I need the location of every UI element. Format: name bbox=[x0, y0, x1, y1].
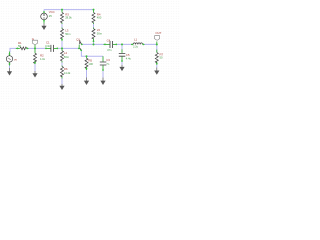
junction and terminal dots bbox=[9, 9, 158, 71]
inductor L4 bbox=[61, 51, 70, 61]
ground under R6 bbox=[59, 84, 64, 90]
svg-text:1.1k: 1.1k bbox=[40, 57, 46, 61]
wire col2 segment bbox=[93, 23, 95, 44]
svg-text:L1: L1 bbox=[134, 38, 138, 42]
inductor L5 bbox=[92, 28, 103, 39]
capacitor C4 bbox=[107, 38, 113, 52]
ground under vs bbox=[7, 68, 12, 76]
wire RS branch bbox=[86, 70, 88, 78]
wire R7 branch bbox=[156, 44, 158, 67]
wire drain line bbox=[82, 43, 157, 45]
resistor R1 bbox=[18, 41, 27, 50]
svg-text:Q1: Q1 bbox=[76, 38, 80, 42]
net flag G bbox=[32, 37, 38, 49]
svg-text:28.5k: 28.5k bbox=[65, 16, 72, 20]
wire C5 branch bbox=[121, 44, 123, 65]
transistor Q1 bbox=[76, 38, 82, 51]
ground under R5 bbox=[84, 78, 89, 86]
svg-text:100: 100 bbox=[88, 62, 93, 66]
svg-text:400: 400 bbox=[97, 16, 102, 20]
svg-text:3.3n: 3.3n bbox=[45, 44, 51, 48]
voltage source vs bbox=[6, 56, 17, 62]
ground under C3 bbox=[100, 78, 105, 86]
ground under VCC bbox=[41, 24, 46, 31]
inductor L3 bbox=[61, 29, 72, 40]
resistor R5 bbox=[85, 58, 93, 68]
voltage source VCC bbox=[41, 10, 56, 19]
wire col1 bias segments bbox=[61, 23, 63, 84]
ground under R2 bbox=[32, 71, 37, 78]
ground under R7 bbox=[154, 68, 159, 75]
wire gate line from source vs through R1, C1 to Q1 gate bbox=[10, 48, 79, 52]
wire R2 branch bbox=[34, 64, 36, 72]
resistor R3 bbox=[61, 13, 73, 23]
wire source line bbox=[81, 50, 103, 56]
resistor R7 bbox=[155, 52, 163, 63]
svg-text:50m: 50m bbox=[65, 32, 71, 36]
svg-text:50m: 50m bbox=[97, 31, 103, 35]
wire top rail from VCC to bias columns bbox=[10, 10, 157, 84]
green pin stubs bbox=[10, 10, 157, 79]
wire CS branch bbox=[102, 71, 104, 78]
svg-text:OUT: OUT bbox=[155, 31, 161, 35]
svg-text:4.4u: 4.4u bbox=[126, 57, 132, 61]
svg-text:C4: C4 bbox=[107, 38, 111, 42]
resistor R6 bbox=[61, 67, 71, 77]
svg-text:47n: 47n bbox=[107, 48, 112, 52]
svg-text:14.2k: 14.2k bbox=[64, 71, 71, 75]
capacitor C1 bbox=[45, 40, 54, 52]
svg-text:2.2u: 2.2u bbox=[133, 45, 139, 49]
ground under C5 bbox=[119, 65, 124, 71]
svg-text:25: 25 bbox=[49, 14, 52, 18]
svg-text:7n: 7n bbox=[106, 62, 109, 66]
resistor R4 bbox=[92, 13, 102, 23]
net flag OUT bbox=[155, 31, 162, 41]
wire vs bottom bbox=[9, 65, 11, 69]
capacitor C5 bbox=[119, 53, 132, 61]
inductor L1 bbox=[133, 38, 143, 49]
resistor R2 bbox=[34, 53, 46, 63]
capacitor C3 bbox=[100, 58, 110, 66]
svg-text:50m: 50m bbox=[64, 55, 70, 59]
